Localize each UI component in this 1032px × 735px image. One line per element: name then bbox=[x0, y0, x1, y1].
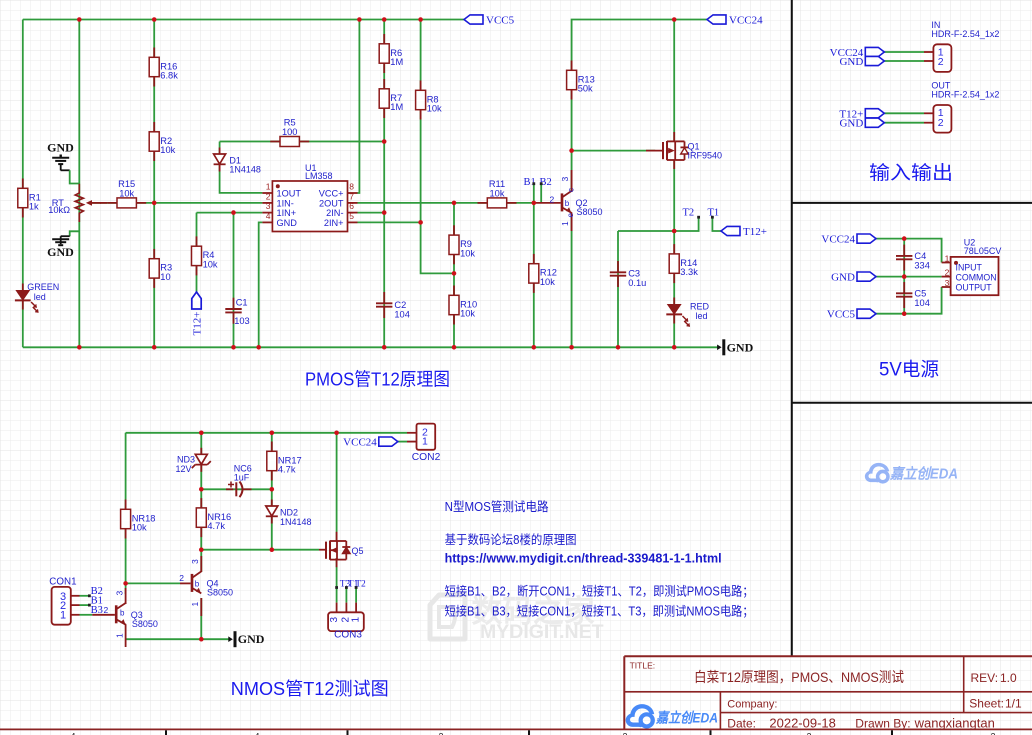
svg-text:GND: GND bbox=[238, 632, 265, 646]
svg-text:输入输出: 输入输出 bbox=[869, 162, 953, 184]
svg-text:GND: GND bbox=[831, 272, 855, 284]
svg-text:VCC+: VCC+ bbox=[319, 188, 344, 198]
svg-text:8: 8 bbox=[349, 182, 354, 192]
svg-text:C3: C3 bbox=[628, 269, 640, 279]
svg-text:5V电源: 5V电源 bbox=[879, 359, 939, 381]
svg-text:4: 4 bbox=[266, 211, 271, 221]
svg-text:白菜T12原理图，PMOS、NMOS测试: 白菜T12原理图，PMOS、NMOS测试 bbox=[694, 669, 904, 685]
svg-text:INPUT: INPUT bbox=[956, 262, 983, 272]
svg-text:1OUT: 1OUT bbox=[277, 188, 302, 198]
svg-text:短接B1、B3，短接CON1，短接T1、T3，即测试NMOS: 短接B1、B3，短接CON1，短接T1、T3，即测试NMOS电路； bbox=[445, 604, 754, 619]
svg-text:1IN+: 1IN+ bbox=[277, 208, 297, 218]
svg-text:嘉立创EDA: 嘉立创EDA bbox=[655, 710, 718, 726]
svg-text:c: c bbox=[567, 188, 576, 192]
svg-text:C1: C1 bbox=[236, 297, 248, 307]
svg-text:1IN-: 1IN- bbox=[277, 198, 294, 208]
svg-text:10k: 10k bbox=[460, 309, 475, 319]
svg-text:T12+: T12+ bbox=[743, 226, 767, 238]
svg-text:2IN-: 2IN- bbox=[326, 208, 343, 218]
svg-text:COMMON: COMMON bbox=[956, 272, 997, 282]
svg-text:6: 6 bbox=[349, 201, 354, 211]
svg-text:1k: 1k bbox=[29, 202, 39, 212]
svg-text:10k: 10k bbox=[160, 145, 175, 155]
svg-text:3: 3 bbox=[560, 177, 570, 182]
svg-text:3: 3 bbox=[190, 559, 200, 564]
svg-text:1: 1 bbox=[560, 221, 570, 226]
svg-text:3: 3 bbox=[945, 278, 950, 288]
svg-text:Q5: Q5 bbox=[352, 546, 364, 556]
svg-text:1/1: 1/1 bbox=[1005, 697, 1022, 711]
svg-text:1: 1 bbox=[422, 436, 428, 448]
svg-text:103: 103 bbox=[234, 316, 250, 326]
svg-text:104: 104 bbox=[394, 309, 410, 319]
svg-text:2: 2 bbox=[266, 192, 271, 202]
svg-text:LM358: LM358 bbox=[305, 171, 333, 181]
svg-text:T12+: T12+ bbox=[191, 312, 203, 336]
svg-text:4: 4 bbox=[70, 731, 75, 735]
svg-text:1: 1 bbox=[945, 253, 950, 263]
svg-text:Company:: Company: bbox=[727, 698, 777, 710]
svg-text:B3: B3 bbox=[91, 605, 103, 616]
svg-text:3: 3 bbox=[438, 731, 443, 735]
svg-text:S8050: S8050 bbox=[207, 587, 233, 597]
svg-text:10k: 10k bbox=[460, 248, 475, 258]
svg-text:1.0: 1.0 bbox=[1000, 671, 1017, 685]
svg-text:GND: GND bbox=[47, 141, 74, 155]
svg-text:10k: 10k bbox=[132, 523, 147, 533]
svg-text:https://www.mydigit.cn/thread-: https://www.mydigit.cn/thread-339481-1-1… bbox=[445, 552, 722, 566]
svg-text:T2: T2 bbox=[683, 208, 695, 219]
svg-text:VCC24: VCC24 bbox=[729, 15, 763, 27]
svg-text:1: 1 bbox=[266, 182, 271, 192]
svg-text:50k: 50k bbox=[578, 84, 593, 94]
svg-text:1M: 1M bbox=[390, 102, 403, 112]
svg-text:2OUT: 2OUT bbox=[319, 198, 344, 208]
svg-text:REV:: REV: bbox=[971, 671, 999, 685]
svg-text:1: 1 bbox=[190, 602, 200, 607]
svg-text:12V: 12V bbox=[175, 464, 191, 474]
svg-text:4.7k: 4.7k bbox=[207, 521, 225, 531]
svg-text:3.3k: 3.3k bbox=[680, 267, 698, 277]
svg-text:10kΩ: 10kΩ bbox=[48, 205, 70, 215]
svg-text:1: 1 bbox=[351, 617, 362, 623]
svg-text:3: 3 bbox=[329, 617, 340, 623]
svg-text:基于数码论坛8楼的原理图: 基于数码论坛8楼的原理图 bbox=[445, 532, 577, 547]
svg-text:2: 2 bbox=[938, 56, 944, 68]
svg-text:4: 4 bbox=[254, 731, 259, 735]
svg-text:CON3: CON3 bbox=[334, 630, 362, 641]
svg-text:104: 104 bbox=[914, 298, 930, 308]
svg-text:4.7k: 4.7k bbox=[278, 465, 296, 475]
svg-text:10k: 10k bbox=[490, 188, 505, 198]
svg-text:IRF9540: IRF9540 bbox=[688, 151, 723, 161]
svg-text:VCC24: VCC24 bbox=[821, 234, 855, 246]
svg-text:1N4148: 1N4148 bbox=[229, 165, 261, 175]
svg-text:CON2: CON2 bbox=[412, 452, 441, 463]
svg-text:b: b bbox=[120, 609, 125, 618]
svg-text:5: 5 bbox=[349, 211, 354, 221]
svg-text:2022-09-18: 2022-09-18 bbox=[769, 716, 836, 731]
svg-text:2: 2 bbox=[945, 268, 950, 278]
svg-text:GND: GND bbox=[277, 218, 298, 228]
svg-text:VCC24: VCC24 bbox=[343, 437, 377, 449]
svg-text:ND3: ND3 bbox=[177, 455, 195, 465]
svg-text:S8050: S8050 bbox=[132, 619, 158, 629]
svg-text:CON1: CON1 bbox=[49, 576, 76, 587]
svg-text:0.1u: 0.1u bbox=[628, 278, 646, 288]
svg-text:10k: 10k bbox=[203, 260, 218, 270]
svg-text:2: 2 bbox=[550, 194, 555, 204]
svg-text:1N4148: 1N4148 bbox=[280, 517, 312, 527]
svg-text:1: 1 bbox=[60, 610, 66, 622]
svg-text:VCC5: VCC5 bbox=[486, 15, 515, 27]
svg-text:GND: GND bbox=[47, 245, 74, 259]
svg-text:N型MOS管测试电路: N型MOS管测试电路 bbox=[445, 499, 549, 514]
svg-text:GND: GND bbox=[839, 56, 863, 68]
svg-text:b: b bbox=[195, 580, 200, 589]
svg-text:NMOS管T12测试图: NMOS管T12测试图 bbox=[231, 679, 389, 699]
svg-text:2IN+: 2IN+ bbox=[324, 218, 344, 228]
svg-text:10k: 10k bbox=[119, 188, 134, 198]
svg-text:PMOS管T12原理图: PMOS管T12原理图 bbox=[305, 370, 450, 390]
svg-text:HDR-F-2.54_1x2: HDR-F-2.54_1x2 bbox=[931, 29, 999, 39]
svg-text:C5: C5 bbox=[914, 288, 926, 298]
svg-text:S8050: S8050 bbox=[577, 207, 603, 217]
svg-text:7: 7 bbox=[349, 192, 354, 202]
svg-text:1M: 1M bbox=[390, 57, 403, 67]
svg-text:led: led bbox=[34, 292, 46, 302]
svg-text:MYDIGIT.NET: MYDIGIT.NET bbox=[480, 621, 604, 643]
svg-text:GND: GND bbox=[727, 340, 754, 354]
svg-text:wangxiangtan: wangxiangtan bbox=[914, 716, 995, 731]
svg-text:1uF: 1uF bbox=[234, 473, 250, 483]
svg-text:3: 3 bbox=[115, 591, 125, 596]
svg-text:2: 2 bbox=[990, 731, 995, 735]
svg-text:短接B1、B2，断开CON1，短接T1、T2，即测试PMOS: 短接B1、B2，断开CON1，短接T1、T2，即测试PMOS电路； bbox=[445, 584, 754, 599]
svg-text:1: 1 bbox=[115, 633, 125, 638]
svg-text:3: 3 bbox=[622, 731, 627, 735]
svg-text:b: b bbox=[565, 199, 570, 208]
svg-text:HDR-F-2.54_1x2: HDR-F-2.54_1x2 bbox=[931, 90, 999, 100]
svg-text:6.8k: 6.8k bbox=[160, 71, 178, 81]
svg-text:2: 2 bbox=[179, 573, 184, 583]
svg-text:VCC5: VCC5 bbox=[827, 309, 856, 321]
svg-text:GREEN: GREEN bbox=[27, 282, 59, 292]
svg-text:TITLE:: TITLE: bbox=[630, 660, 656, 670]
svg-text:e: e bbox=[566, 213, 575, 218]
svg-text:78L05CV: 78L05CV bbox=[964, 246, 1002, 256]
svg-text:10: 10 bbox=[160, 272, 170, 282]
svg-text:10k: 10k bbox=[540, 277, 555, 287]
svg-text:Sheet:: Sheet: bbox=[969, 697, 1004, 711]
svg-text:led: led bbox=[696, 311, 708, 321]
svg-text:OUTPUT: OUTPUT bbox=[956, 282, 993, 292]
svg-text:GND: GND bbox=[839, 118, 863, 130]
svg-text:2: 2 bbox=[104, 605, 109, 615]
svg-text:2: 2 bbox=[806, 731, 811, 735]
svg-text:334: 334 bbox=[914, 261, 930, 271]
svg-text:嘉立创EDA: 嘉立创EDA bbox=[889, 465, 958, 482]
svg-text:2: 2 bbox=[938, 117, 944, 129]
svg-text:10k: 10k bbox=[427, 104, 442, 114]
svg-text:3: 3 bbox=[266, 201, 271, 211]
svg-text:100: 100 bbox=[282, 127, 298, 137]
